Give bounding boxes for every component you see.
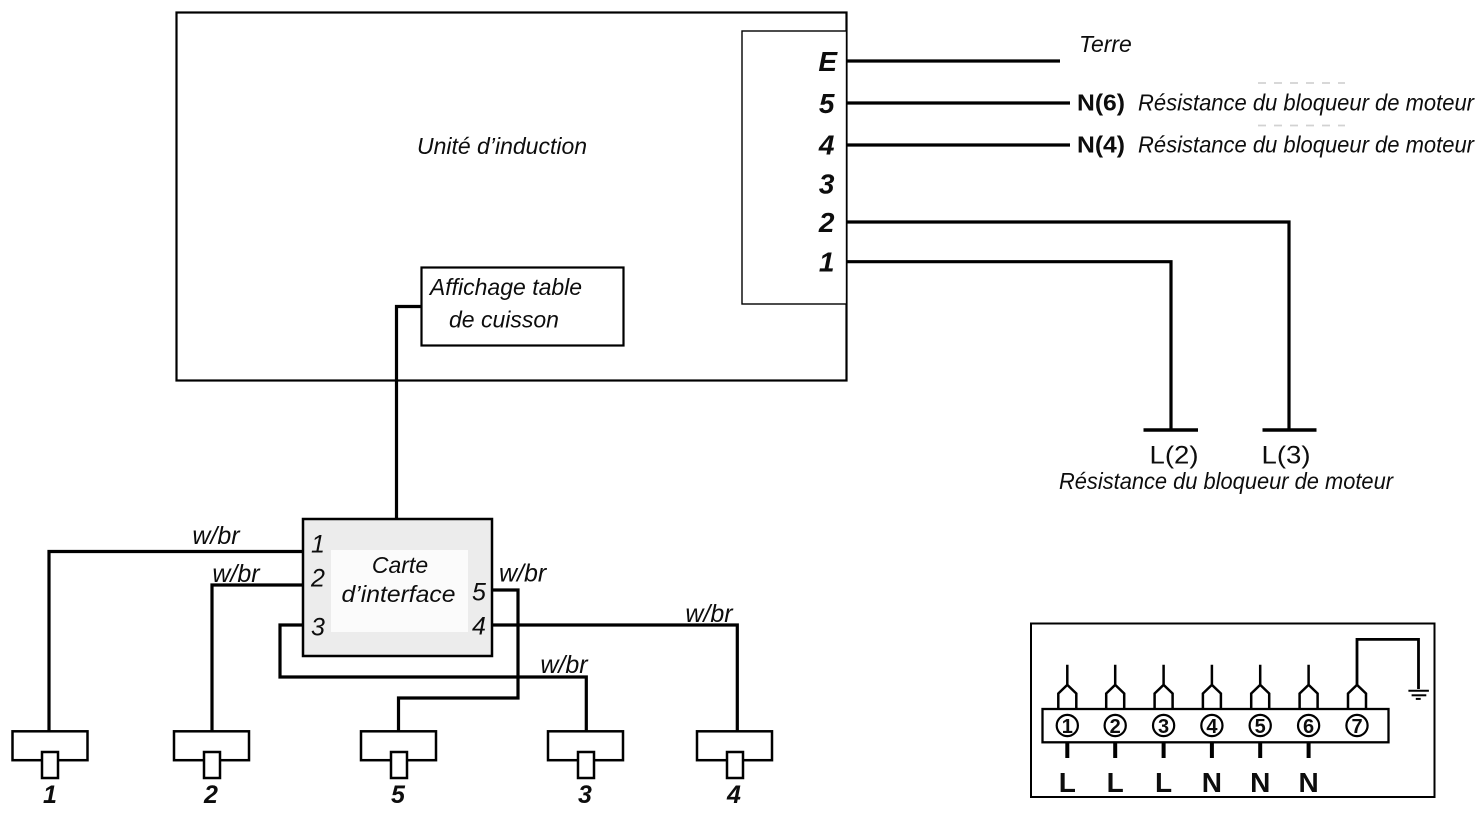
mains terminal 2 — [1105, 665, 1126, 798]
interface board inner panel — [331, 550, 468, 632]
svg-text:L(3): L(3) — [1262, 442, 1311, 470]
mains terminal 5 — [1250, 665, 1271, 798]
coil connector 4 — [697, 731, 772, 760]
terminal bar L(2) — [1144, 428, 1199, 431]
interface board wire pin 3 — [280, 625, 586, 731]
svg-text:1: 1 — [43, 781, 57, 809]
svg-text:N(4): N(4) — [1077, 132, 1125, 158]
coil connector 1 tab — [42, 752, 58, 778]
coil connector 3 tab — [578, 752, 594, 778]
wire display to interface board — [397, 307, 423, 520]
svg-text:2: 2 — [1110, 716, 1121, 738]
artifact dashes row 1 — [1258, 82, 1345, 84]
svg-text:5: 5 — [472, 579, 486, 607]
svg-text:2: 2 — [310, 565, 325, 593]
svg-text:2: 2 — [203, 781, 218, 809]
svg-text:L: L — [1059, 767, 1076, 798]
svg-text:3: 3 — [311, 614, 325, 642]
mains terminal 7 — [1346, 685, 1367, 738]
svg-text:Résistance du bloqueur de mote: Résistance du bloqueur de moteur — [1138, 132, 1475, 158]
svg-text:w/br: w/br — [212, 560, 261, 588]
svg-text:7: 7 — [1351, 716, 1362, 738]
interface board wire pin 1 — [49, 552, 303, 732]
coil connector 2 tab — [204, 752, 220, 778]
svg-text:3: 3 — [819, 169, 835, 200]
svg-text:4: 4 — [472, 613, 486, 641]
svg-text:3: 3 — [578, 781, 592, 809]
ground symbol — [1408, 691, 1429, 699]
svg-text:N: N — [1202, 767, 1222, 798]
mains terminal outer box — [1031, 624, 1435, 798]
svg-text:N: N — [1250, 767, 1270, 798]
svg-text:4: 4 — [1206, 716, 1218, 738]
svg-text:3: 3 — [1158, 716, 1169, 738]
svg-text:d’interface: d’interface — [342, 581, 456, 607]
wire 1 to L(2) — [847, 262, 1171, 429]
mains terminal 4 — [1201, 665, 1222, 798]
wire E to Terre — [847, 59, 1060, 62]
svg-text:Terre: Terre — [1079, 31, 1132, 57]
svg-text:Résistance du bloqueur de mote: Résistance du bloqueur de moteur — [1059, 468, 1394, 494]
connector block J1 — [742, 31, 847, 304]
svg-text:w/br: w/br — [685, 600, 734, 628]
svg-text:L: L — [1155, 767, 1172, 798]
svg-text:w/br: w/br — [192, 522, 241, 550]
svg-text:de cuisson: de cuisson — [449, 307, 559, 333]
svg-text:5: 5 — [819, 88, 835, 119]
interface board wire pin 5 — [399, 590, 519, 731]
induction unit box — [177, 13, 847, 381]
coil connector 2 — [174, 731, 249, 760]
svg-text:Résistance du bloqueur de mote: Résistance du bloqueur de moteur — [1138, 90, 1475, 116]
svg-text:E: E — [818, 46, 838, 77]
svg-text:2: 2 — [818, 207, 835, 238]
svg-text:1: 1 — [311, 531, 325, 559]
svg-text:N(6): N(6) — [1077, 90, 1125, 116]
svg-text:1: 1 — [1062, 716, 1073, 738]
wire 2 to L(3) — [847, 222, 1289, 429]
svg-text:L(2): L(2) — [1150, 442, 1199, 470]
artifact dashes row 2 — [1258, 125, 1345, 127]
display box — [422, 268, 624, 346]
svg-text:1: 1 — [819, 247, 835, 278]
wire 4 to N(4) — [847, 143, 1070, 146]
mains terminal 3 — [1153, 665, 1174, 798]
svg-text:L: L — [1107, 767, 1124, 798]
interface board U1 — [303, 519, 492, 656]
svg-text:w/br: w/br — [540, 651, 589, 679]
earth wire from terminal 7 — [1357, 639, 1419, 689]
mains terminal 6 — [1298, 665, 1319, 798]
svg-text:w/br: w/br — [499, 560, 548, 588]
svg-text:5: 5 — [391, 781, 406, 809]
svg-text:4: 4 — [818, 130, 835, 161]
svg-text:N: N — [1298, 767, 1318, 798]
mains terminal 1 — [1057, 665, 1078, 798]
coil connector 3 — [548, 731, 623, 760]
svg-text:Unité d’induction: Unité d’induction — [417, 133, 587, 159]
svg-text:6: 6 — [1303, 716, 1314, 738]
svg-text:5: 5 — [1255, 716, 1266, 738]
coil connector 1 — [13, 731, 88, 760]
mains terminal strip — [1043, 709, 1389, 742]
coil connector 5 — [361, 731, 436, 760]
terminal bar L(3) — [1263, 428, 1317, 431]
interface board wire pin 4 — [492, 625, 737, 731]
svg-text:4: 4 — [726, 781, 741, 809]
coil connector 5 tab — [391, 752, 407, 778]
svg-text:Affichage table: Affichage table — [428, 274, 582, 300]
coil connector 4 tab — [727, 752, 743, 778]
wire 5 to N(6) — [847, 101, 1070, 104]
svg-text:Carte: Carte — [372, 552, 428, 578]
interface board wire pin 2 — [212, 585, 303, 731]
